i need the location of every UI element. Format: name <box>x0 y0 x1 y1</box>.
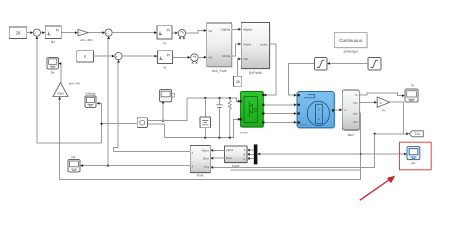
bottom feedback wire <box>60 178 361 180</box>
load torque wire to motor Tm <box>289 64 315 97</box>
demux bar <box>254 144 258 164</box>
svg-text:powergui: powergui <box>344 50 358 54</box>
bus selector Mux <box>342 90 360 137</box>
wire display tap <box>162 101 165 122</box>
svg-text:Mux: Mux <box>348 133 355 137</box>
gain wm-Nr1 (triangle) <box>78 29 93 42</box>
wire Clark beta to Park <box>210 157 224 160</box>
svg-text:abc: abc <box>411 161 416 165</box>
svg-text:Valpha: Valpha <box>243 28 252 32</box>
goto tag The <box>409 131 423 137</box>
wire Ubeta to SVPWM Vbeta <box>232 43 242 56</box>
svg-text:C: C <box>243 157 245 161</box>
scope Iq1 <box>68 155 80 172</box>
wire voltmeter to scope Voltage <box>97 102 138 143</box>
wire Park d out feedback <box>114 150 191 152</box>
svg-text:Iabc: Iabc <box>353 112 359 115</box>
svg-text:Iq: Iq <box>163 41 166 45</box>
sum junction S2 (iq error) <box>105 29 112 39</box>
wire to scope Iq1 <box>80 164 108 167</box>
svg-text:Beta: Beta <box>226 156 232 160</box>
wire ramp to rate limiter <box>327 62 368 65</box>
battery dc source <box>200 98 211 138</box>
svg-text:Vdc: Vdc <box>243 57 249 61</box>
wire sum3 to PI Id <box>122 55 157 58</box>
PI controller Iq <box>157 26 172 45</box>
svg-text:4: 4 <box>380 101 382 105</box>
svg-text:Vq: Vq <box>208 29 212 33</box>
wire PI N2 to gain wm-Nr1 <box>61 31 78 34</box>
scope Te <box>405 83 418 102</box>
red annotation arrow <box>360 176 396 201</box>
svg-text:Tha: Tha <box>204 165 209 169</box>
wire gain30pi to scope Ne <box>58 62 61 82</box>
wire Ualpha to SVPWM Valpha <box>232 28 242 31</box>
inverter universal bridge (green) <box>240 92 265 135</box>
sum junction S1 (speed error) <box>33 29 40 39</box>
svg-text:Te: Te <box>411 83 415 87</box>
wire mux Te to scope Te <box>359 93 405 97</box>
rate limiter block (left) <box>315 58 328 71</box>
wire Park q out feedback <box>107 165 191 167</box>
subsystem SVPWM <box>241 23 270 75</box>
svg-text:pulse: pulse <box>261 42 269 46</box>
sum junction S3 (id error) <box>115 53 122 63</box>
svg-text:Beta: Beta <box>203 156 209 160</box>
svg-text:Iq1: Iq1 <box>71 155 76 159</box>
resistor branch <box>228 98 231 138</box>
svg-text:Ubeta: Ubeta <box>222 54 230 58</box>
dc bottom rail <box>164 118 240 139</box>
svg-text:Alpha: Alpha <box>226 148 234 152</box>
wire Clark alpha to Park <box>210 149 224 152</box>
wire PI Iq to saturation circle Vq <box>172 32 178 35</box>
svg-text:28: 28 <box>236 80 240 84</box>
svg-text:s: s <box>318 108 320 112</box>
svg-text:Continuous: Continuous <box>339 38 363 43</box>
svg-text:Inverter: Inverter <box>240 131 248 134</box>
wire Iabc to demux bar <box>257 153 360 156</box>
wire sat Vq to Anti_Park Vq <box>186 29 207 33</box>
svg-text:Voltage: Voltage <box>85 91 96 95</box>
svg-text:Ne: Ne <box>51 70 55 74</box>
wire motor m to mux <box>334 108 342 111</box>
svg-text:Ualpha: Ualpha <box>221 28 231 32</box>
wire sat Vd to Anti_Park Vd <box>198 56 207 59</box>
saturation circle Vd <box>191 54 198 64</box>
voltage measurement block <box>137 118 147 128</box>
gain Pn (triangle) <box>377 97 390 112</box>
wire gain Pn to goto The <box>374 102 410 135</box>
feedback wire iq to sum2 <box>107 36 110 165</box>
PI controller Id <box>157 51 172 70</box>
wire sum2 to PI Iq <box>112 31 157 34</box>
constant 28 (Vdc reference) <box>234 76 242 86</box>
svg-text:m n.m: m n.m <box>300 124 307 127</box>
wire sum1 to PI N2 <box>41 31 46 34</box>
saturation circle Vq <box>178 30 185 40</box>
wire mux Iabc and Wm down <box>359 113 362 179</box>
middle feedback wire <box>231 169 361 171</box>
powergui block <box>335 33 369 54</box>
wire bottom loop into gain 30/pi <box>58 97 61 180</box>
wire Vdc const up to SVPWM <box>238 58 242 77</box>
subsystem Park <box>190 145 211 177</box>
svg-text:Id: Id <box>164 66 167 70</box>
display block Idc <box>160 90 175 102</box>
svg-text:Anti_Park: Anti_Park <box>212 69 227 73</box>
svg-text:Park: Park <box>197 174 204 178</box>
svg-text:-: - <box>138 125 139 128</box>
scope Ne <box>47 57 58 74</box>
svg-text:wm->Nr1: wm->Nr1 <box>80 38 93 42</box>
svg-text:wm->Nr: wm->Nr <box>69 81 80 85</box>
scope Voltage <box>85 91 96 107</box>
gain 30/pi (upward triangle) <box>53 81 80 96</box>
svg-text:Vbeta: Vbeta <box>243 42 251 46</box>
feedback wire id to sum3 <box>114 60 120 152</box>
svg-text:Wm: Wm <box>353 121 358 124</box>
wire inverter phase C to motor <box>264 121 296 124</box>
wire Iabc to scope abc <box>361 153 407 156</box>
constant block 0 (id reference) <box>77 51 94 62</box>
svg-text:Alpha: Alpha <box>201 149 209 153</box>
svg-text:Thm: Thm <box>353 102 358 105</box>
red highlight rectangle <box>400 142 432 170</box>
svg-text:Clark: Clark <box>232 164 240 168</box>
wire gain to sum2 <box>88 31 105 34</box>
wire demux to Clark C <box>247 157 254 160</box>
wire speed ref to sum1 <box>27 31 34 34</box>
svg-text:Pn: Pn <box>382 108 386 112</box>
wire voltmeter plus to dc top rail <box>147 98 187 120</box>
PMSM machine (blue) <box>297 92 335 129</box>
dc top rail <box>187 97 241 103</box>
svg-text:The: The <box>415 132 421 136</box>
capacitor branch <box>216 98 223 138</box>
svg-text:N2: N2 <box>51 40 55 44</box>
wire SVPWM pulse to inverter g <box>264 44 277 96</box>
svg-text:PI: PI <box>167 53 171 57</box>
subsystem Clark <box>224 146 248 168</box>
wire demux to Clark A <box>247 149 254 152</box>
wire inverter phase B to motor <box>264 112 296 115</box>
wire mux Thm to gain Pn <box>359 101 377 104</box>
svg-text:m: m <box>345 109 347 112</box>
subsystem Anti_Park <box>207 23 233 73</box>
wire theta down to Park Tha <box>210 134 374 169</box>
wire const0 to sum3 <box>93 55 114 58</box>
wire PI Id to saturation circle Vd <box>172 56 190 59</box>
PI controller N2 (speed loop) <box>45 26 61 44</box>
svg-text:PI: PI <box>56 29 60 33</box>
wire voltmeter minus to dc bottom rail <box>147 124 164 138</box>
wire inverter phase A to motor <box>264 103 296 106</box>
svg-text:SVPWM: SVPWM <box>249 71 262 75</box>
svg-text:28: 28 <box>16 31 21 36</box>
feedback wire wm to sum1 <box>36 36 102 143</box>
wire demux to Clark B <box>247 153 254 156</box>
svg-text:30/pi: 30/pi <box>57 91 64 95</box>
constant block 28 (speed reference) <box>9 27 27 38</box>
scope abc (selected, blue border) <box>407 147 420 166</box>
ramp source block (right) <box>368 58 381 71</box>
svg-text:Vd: Vd <box>208 55 212 59</box>
svg-text:PI: PI <box>167 29 171 33</box>
svg-text:s: s <box>318 117 320 121</box>
